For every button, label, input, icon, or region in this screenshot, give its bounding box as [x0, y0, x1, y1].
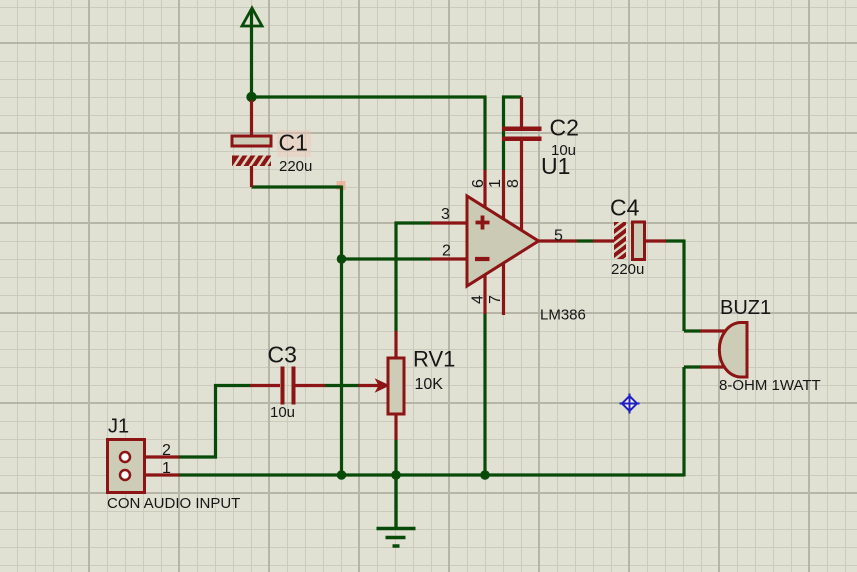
buzzer BUZ1 body	[719, 323, 747, 378]
capacitor C4 left plate (hatched)	[611, 216, 629, 270]
potentiometer RV1 body	[388, 358, 404, 414]
svg-text:5: 5	[554, 228, 563, 245]
wire op-amp pin4 to ground rail	[483, 314, 486, 475]
capacitor C3 right plate	[292, 367, 296, 405]
wire C4 to buzzer top	[666, 240, 702, 332]
junction node dots	[246, 92, 490, 480]
pink origin marker square on wire corner	[337, 181, 346, 190]
svg-text:3: 3	[441, 206, 450, 223]
op-amp plus input marker	[476, 216, 490, 230]
capacitor C2 bottom plate	[502, 137, 542, 142]
svg-text:U1: U1	[541, 153, 570, 179]
svg-text:J1: J1	[108, 416, 129, 438]
pin 6 lead	[483, 170, 486, 209]
svg-text:4: 4	[470, 295, 487, 304]
selection highlight behind C1 label	[277, 130, 311, 157]
connector J1 body	[108, 440, 145, 493]
RV1 bottom lead	[394, 414, 397, 440]
J1 pin 1 lead	[144, 473, 179, 476]
capacitor C4 right plate	[633, 222, 645, 260]
svg-text:8-OHM 1WATT: 8-OHM 1WATT	[719, 377, 821, 394]
buzzer bottom lead	[700, 365, 728, 368]
svg-text:7: 7	[487, 295, 504, 304]
capacitor C1 top plate	[232, 136, 271, 146]
ground symbol	[377, 475, 416, 546]
capacitor C3 left plate	[281, 367, 285, 405]
capacitor C2 top plate	[502, 127, 542, 132]
wire ground rail	[179, 473, 684, 476]
pin 4 lead	[483, 275, 486, 314]
wire C3 to RV1 wiper	[325, 384, 359, 387]
op-amp U1 triangle body	[467, 196, 539, 286]
pin 2 lead	[430, 257, 467, 260]
J1 pad pin 2	[120, 452, 130, 462]
svg-text:8: 8	[505, 179, 522, 188]
wire C2 top lead	[520, 97, 523, 127]
svg-text:BUZ1: BUZ1	[720, 297, 771, 319]
svg-text:1: 1	[162, 460, 171, 477]
wire power stem	[250, 9, 253, 97]
wire pin6 vertical drop	[483, 96, 486, 171]
pin 8 lead / C2 bottom lead	[520, 141, 523, 230]
wire C4 left lead	[593, 239, 614, 242]
svg-text:2: 2	[162, 442, 171, 459]
wire pin1 to C2 bridge	[504, 97, 522, 170]
pin 1 lead	[502, 170, 505, 218]
power symbol VCC arrow	[242, 8, 262, 26]
wire C3 right lead	[296, 384, 326, 387]
J1 pad pin 1	[120, 470, 130, 480]
wire RV1 bottom to ground rail	[394, 440, 397, 475]
capacitor C1 bottom plate (hatched)	[232, 154, 274, 169]
blue origin marker	[620, 394, 640, 414]
svg-text:RV1: RV1	[413, 347, 455, 372]
svg-text:CON AUDIO INPUT: CON AUDIO INPUT	[107, 495, 240, 512]
RV1 top lead	[394, 331, 397, 358]
wire buzzer bottom to ground rail	[684, 367, 701, 477]
wire C1 top lead	[250, 100, 253, 136]
svg-text:6: 6	[470, 179, 487, 188]
wire pin3 horizontal	[396, 223, 430, 331]
svg-text:C3: C3	[268, 342, 297, 368]
wire C1 bottom to pin2 net	[252, 185, 342, 188]
svg-text:C2: C2	[550, 115, 579, 141]
RV1 wiper arrowhead	[377, 380, 389, 391]
op-amp minus input marker	[475, 257, 490, 261]
wire C4 right lead	[645, 239, 667, 242]
wire J1 pin2 to C3	[179, 386, 251, 458]
svg-text:10u: 10u	[270, 404, 295, 421]
wire C3 left lead	[250, 384, 280, 387]
node ground rail / pin2 net	[337, 470, 347, 480]
svg-text:LM386: LM386	[540, 307, 586, 324]
svg-text:220u: 220u	[279, 158, 312, 175]
node ground rail / RV1	[391, 470, 401, 480]
wire C1 bottom lead	[250, 166, 253, 187]
svg-text:C1: C1	[279, 130, 308, 156]
buzzer top lead	[700, 329, 728, 332]
svg-text:C4: C4	[610, 195, 640, 221]
node supply junction	[246, 92, 256, 102]
svg-text:220u: 220u	[611, 261, 644, 278]
svg-text:1: 1	[487, 179, 504, 188]
pin 5 lead	[538, 239, 577, 242]
wire pin5 to C4	[577, 239, 594, 242]
svg-text:2: 2	[442, 243, 451, 260]
RV1 wiper arrow	[359, 384, 381, 387]
J1 pin 2 lead	[144, 455, 179, 458]
wire pin2/ground vertical	[340, 186, 343, 476]
svg-text:10K: 10K	[415, 376, 444, 393]
wire pin2 horizontal	[342, 257, 431, 260]
node pin2 tap	[337, 254, 347, 264]
pin 7 lead	[502, 264, 505, 315]
wire supply rail to pin6	[252, 95, 487, 98]
pin 3 lead	[430, 221, 467, 224]
node ground rail / pin4	[480, 470, 490, 480]
